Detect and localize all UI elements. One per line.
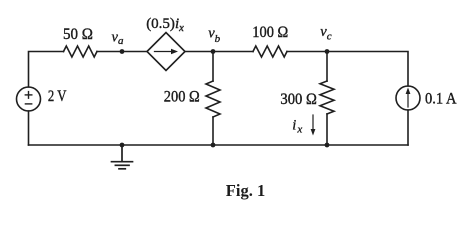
resistor R 50ohm zigzag [64,46,98,57]
wire vc branch top [326,52,328,82]
dependent source diamond (0.5)ix [147,33,185,71]
plus sign of voltage source [25,92,32,104]
resistor R 300ohm vertical zigzag [320,81,334,114]
wire diamond to 100ohm [185,51,253,53]
node c bottom dot [325,143,330,148]
ground node dot [120,143,125,148]
node c dot [325,49,330,54]
bottom wire [29,144,409,146]
resistor R 200ohm vertical zigzag [206,81,220,117]
wire vc branch bottom [326,114,328,145]
voltage source V1 circle 2V [17,87,41,111]
svg-text:Fig. 1: Fig. 1 [226,181,265,200]
wire vb branch bottom [212,117,214,145]
node a dot [120,49,125,54]
node b bottom dot [211,143,216,148]
svg-text:(0.5)ix: (0.5)ix [146,16,184,34]
wire 50ohm to diamond [97,51,147,53]
wire 100ohm to top-right corner [287,52,408,87]
current source I1 circle 0.1A [396,86,420,110]
ix current arrow [311,115,316,136]
svg-text:100 Ω: 100 Ω [252,24,288,41]
right vertical below current source [407,110,409,145]
wire vb branch top [212,52,214,82]
svg-text:200 Ω: 200 Ω [164,88,200,105]
arrow inside dependent source [155,49,179,55]
wire left vertical below source [28,111,30,145]
svg-text:0.1 A: 0.1 A [425,90,457,107]
minus sign of voltage source [25,103,31,105]
svg-text:2 V: 2 V [48,88,67,105]
ground symbol [112,145,133,169]
svg-text:300 Ω: 300 Ω [280,91,317,108]
resistor R 100ohm zigzag [253,46,287,57]
svg-text:50 Ω: 50 Ω [63,26,93,43]
wire top-left segment [29,52,64,88]
node b dot [211,49,216,54]
current source arrow [406,88,411,108]
